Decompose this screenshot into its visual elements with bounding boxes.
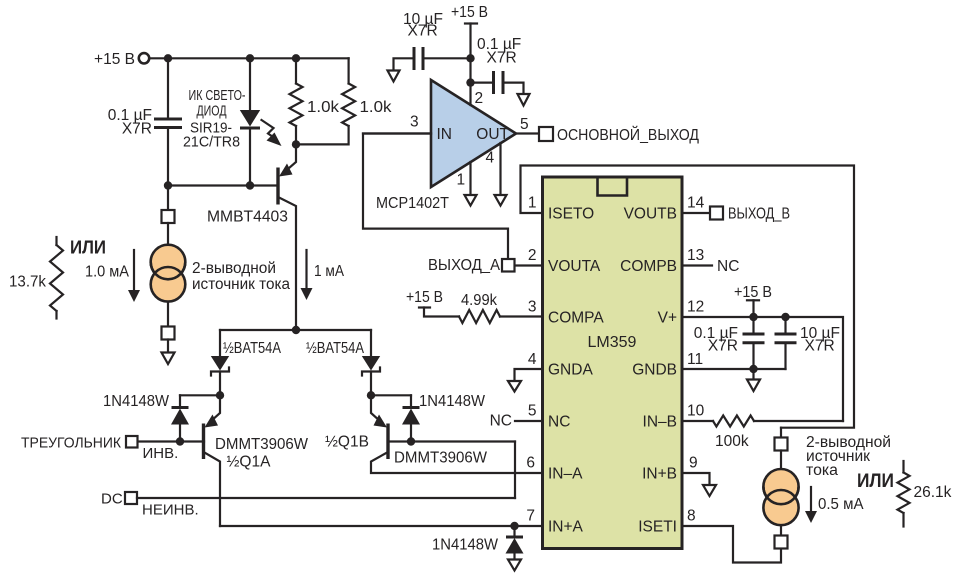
wire Q1A collector to IN+A: [220, 525, 543, 527]
svg-text:1: 1: [528, 195, 537, 212]
node junction V+ / C4: [749, 313, 757, 321]
svg-text:ИЛИ: ИЛИ: [70, 237, 106, 258]
svg-text:½BAT54A: ½BAT54A: [306, 340, 365, 357]
wire VOUTA to U2 input: [363, 134, 508, 260]
node junction Q1A base / D4: [176, 437, 184, 445]
node junction C2: [466, 54, 474, 62]
terminal ОСНОВНОЙ_ВЫХОД: [520, 116, 699, 144]
svg-text:6: 6: [526, 455, 535, 472]
svg-text:COMPA: COMPA: [548, 310, 604, 327]
power +15V rail (V+): [734, 284, 772, 317]
resistor R3 13.7k (OR alternative): [9, 237, 106, 319]
svg-text:X7R: X7R: [122, 121, 152, 138]
svg-text:1N4148W: 1N4148W: [432, 537, 498, 554]
node junction LED bottom: [246, 181, 254, 189]
pin 4 GNDA stub: [515, 351, 543, 381]
svg-text:3: 3: [410, 114, 419, 131]
ground (U2 pin4): [495, 195, 507, 206]
wire 0.5mA arrow label: [805, 487, 864, 523]
svg-text:ДИОД: ДИОД: [197, 103, 227, 120]
svg-text:X7R: X7R: [408, 23, 438, 40]
node junction resistor bottoms / emitter: [292, 140, 300, 148]
transistor Q3 MMBT4403 (PNP): [207, 144, 296, 330]
current source CS2 (2-terminal, right): [763, 428, 891, 549]
op-amp U1 LM359 body: [543, 177, 683, 549]
diode D6 1N4148W (IN+A clamp): [432, 526, 524, 560]
transistor Q1B 1/2 DMMT3906W (PNP): [325, 395, 543, 473]
svg-text:НЕИНВ.: НЕИНВ.: [142, 502, 199, 519]
svg-text:GNDA: GNDA: [548, 362, 593, 379]
diode D3 1/2BAT54A (right, Schottky): [306, 330, 380, 395]
node junction LED branch: [246, 54, 254, 62]
wire emitter junction to diode D4: [180, 394, 220, 396]
wire emitter junction to diode D5: [371, 394, 411, 396]
svg-text:NC: NC: [548, 414, 570, 431]
svg-text:2: 2: [528, 247, 537, 264]
diode D5 1N4148W (right clamp): [402, 393, 485, 442]
svg-text:5: 5: [520, 116, 529, 133]
svg-text:14: 14: [687, 195, 705, 212]
svg-text:9: 9: [689, 455, 698, 472]
pin 10 IN-B with resistor R5 100k: [682, 403, 843, 451]
svg-text:DMMT3906W: DMMT3906W: [215, 436, 308, 453]
svg-text:1.0k: 1.0k: [307, 99, 339, 116]
svg-text:13: 13: [687, 247, 704, 264]
svg-text:ВЫХОД_А: ВЫХОД_А: [428, 257, 501, 274]
resistor R1 1.0k: [290, 58, 340, 144]
svg-text:1N4148W: 1N4148W: [419, 393, 485, 410]
svg-text:+15 В: +15 В: [94, 51, 135, 68]
pin 12 V+ wire: [682, 299, 843, 422]
svg-text:ИК СВЕТО-: ИК СВЕТО-: [189, 87, 246, 104]
svg-text:4: 4: [486, 150, 495, 167]
svg-text:2-выводной: 2-выводной: [192, 260, 276, 277]
svg-text:тока: тока: [806, 462, 838, 479]
svg-text:13.7k: 13.7k: [9, 274, 46, 291]
ground (C3): [518, 94, 530, 106]
pin 14 VOUTB stub: [682, 195, 710, 214]
IR LED D1 SIR19-21C/TR8: [183, 58, 282, 185]
svg-text:+15 В: +15 В: [734, 284, 772, 301]
svg-text:½Q1A: ½Q1A: [227, 454, 272, 471]
svg-text:V+: V+: [658, 310, 677, 327]
svg-text:2: 2: [475, 90, 484, 107]
svg-text:+15 В: +15 В: [451, 4, 488, 21]
capacitor C2 10uF X7R: [394, 11, 471, 71]
svg-text:ИЛИ: ИЛИ: [857, 471, 894, 492]
wire collector rail to diodes: [220, 329, 371, 331]
ground (GNDB): [747, 369, 760, 391]
svg-text:VOUTA: VOUTA: [548, 258, 601, 275]
svg-text:IN: IN: [437, 126, 453, 143]
pin 5 NC stub: [490, 403, 543, 430]
ground (GNDA): [508, 381, 521, 392]
svg-text:COMPB: COMPB: [620, 258, 677, 275]
resistor R6 26.1k (OR alternative): [857, 461, 952, 527]
diode D4 1N4148W (left clamp): [103, 393, 189, 442]
svg-text:1.0k: 1.0k: [360, 99, 392, 116]
node junction Q1B base / D5: [407, 437, 415, 445]
svg-text:½BAT54A: ½BAT54A: [223, 340, 282, 357]
svg-text:1N4148W: 1N4148W: [103, 393, 169, 410]
svg-text:DMMT3906W: DMMT3906W: [394, 450, 487, 467]
svg-text:1 мА: 1 мА: [314, 263, 345, 280]
wire 1.0mA arrow label: [85, 250, 140, 302]
svg-text:12: 12: [687, 299, 704, 316]
svg-text:ТРЕУГОЛЬНИК: ТРЕУГОЛЬНИК: [21, 435, 121, 452]
svg-text:IN–B: IN–B: [643, 414, 677, 431]
svg-text:X7R: X7R: [708, 338, 738, 355]
svg-text:+15 В: +15 В: [406, 289, 443, 306]
current source CS1 (2-terminal, left): [151, 186, 291, 353]
wire 1mA arrow label: [301, 250, 345, 300]
terminal ТРЕУГОЛЬНИК (triangle input): [21, 435, 178, 463]
svg-text:VOUTB: VOUTB: [624, 206, 677, 223]
pin 8 ISETI wire: [682, 508, 781, 563]
svg-text:DC: DC: [101, 491, 123, 508]
svg-text:GNDB: GNDB: [632, 362, 677, 379]
node junction GNDB: [749, 365, 757, 373]
node junction resistor branch: [292, 54, 300, 62]
svg-text:X7R: X7R: [487, 50, 517, 67]
svg-text:MMBT4403: MMBT4403: [207, 209, 288, 226]
svg-text:100k: 100k: [715, 433, 749, 450]
node junction Q1B emitter: [367, 391, 375, 399]
svg-text:ВЫХОД_В: ВЫХОД_В: [728, 206, 790, 223]
pin 1 ISETO loop wire: [521, 166, 855, 428]
svg-text:26.1k: 26.1k: [914, 484, 952, 501]
ground (IN+B): [703, 485, 716, 496]
node junction Q1A emitter: [216, 391, 224, 399]
capacitor C4 0.1uF X7R: [694, 317, 765, 369]
svg-text:5: 5: [528, 403, 537, 420]
wire base rail (cap/LED/base): [168, 184, 277, 186]
diode D2 1/2BAT54A (left, Schottky): [211, 330, 282, 395]
svg-text:MCP1402T: MCP1402T: [376, 195, 449, 212]
svg-text:ИНВ.: ИНВ.: [143, 445, 179, 462]
pin 2 VOUTA stub: [515, 247, 543, 266]
wire +15V rail top-left: [149, 57, 348, 59]
node junction V+ / C5: [781, 313, 789, 321]
svg-text:0.5 мА: 0.5 мА: [818, 496, 864, 513]
svg-text:X7R: X7R: [805, 338, 835, 355]
power +15V rail (MCP1402T): [451, 4, 488, 83]
svg-text:OUT: OUT: [476, 126, 509, 143]
node junction cap branch: [164, 54, 172, 62]
pin 3 COMPA with resistor R4 4.99k: [406, 289, 543, 323]
svg-text:IN+B: IN+B: [642, 466, 677, 483]
svg-text:ISETO: ISETO: [548, 206, 594, 223]
transistor Q1A 1/2 DMMT3906W (PNP): [138, 395, 309, 526]
capacitor C1 0.1uF X7R (left): [108, 58, 182, 185]
resistor R2 1.0k: [296, 58, 392, 144]
ground (D6): [508, 560, 521, 571]
ground (left current source): [162, 353, 175, 365]
svg-text:LM359: LM359: [588, 334, 637, 351]
svg-text:NC: NC: [490, 413, 512, 430]
svg-text:источник тока: источник тока: [192, 276, 290, 293]
terminal ВЫХОД_В: [710, 206, 790, 223]
svg-text:IN+A: IN+A: [548, 519, 584, 536]
svg-text:NC: NC: [717, 258, 739, 275]
svg-text:4: 4: [528, 351, 537, 368]
svg-text:3: 3: [528, 299, 537, 316]
svg-text:4.99k: 4.99k: [461, 292, 497, 309]
wire U2 output pin 5: [516, 132, 539, 134]
node junction IN+A / D6: [510, 522, 518, 530]
svg-text:10: 10: [687, 403, 705, 420]
svg-text:1: 1: [457, 172, 466, 189]
svg-text:11: 11: [687, 351, 703, 368]
terminal ВЫХОД_А: [428, 257, 515, 274]
capacitor C3 0.1uF X7R: [471, 36, 524, 94]
pin 11 GNDB wire: [682, 351, 786, 369]
node junction C3 / pin 2: [466, 78, 474, 86]
terminal DC input: [101, 491, 515, 519]
node junction cap bottom: [164, 181, 172, 189]
ground (U2 pin1): [465, 195, 477, 206]
svg-text:7: 7: [526, 508, 535, 525]
pin 9 IN+B stub to ground: [682, 455, 710, 486]
svg-text:½Q1B: ½Q1B: [325, 434, 369, 451]
buffer U2 MCP1402T: [363, 80, 516, 212]
ground (C2): [388, 71, 400, 82]
svg-text:21C/TR8: 21C/TR8: [183, 134, 240, 151]
wire Q1B base to DC line: [514, 442, 516, 499]
capacitor C5 10uF X7R: [775, 317, 840, 369]
node junction collector/diode rail: [292, 326, 300, 334]
svg-text:ISETI: ISETI: [638, 519, 677, 536]
power +15V terminal (left): [94, 51, 149, 68]
svg-text:1.0 мА: 1.0 мА: [85, 264, 130, 281]
svg-text:ОСНОВНОЙ_ВЫХОД: ОСНОВНОЙ_ВЫХОД: [557, 126, 699, 144]
svg-text:IN–A: IN–A: [548, 466, 583, 483]
pin 13 COMPB stub (NC): [682, 247, 739, 275]
svg-text:8: 8: [687, 508, 696, 525]
